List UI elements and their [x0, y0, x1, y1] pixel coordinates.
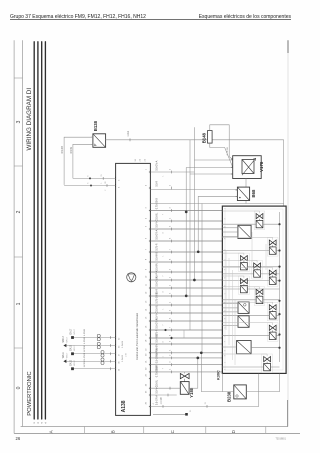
svg-text:0.5-GN-A: 0.5-GN-A — [155, 353, 158, 364]
svg-text:WIRING DIAGRAM DI: WIRING DIAGRAM DI — [26, 88, 33, 151]
svg-text:Grupo 37 Esquema eléctrico FM9: Grupo 37 Esquema eléctrico FM9, FM12, FH… — [10, 14, 146, 20]
wire Y188 right side — [189, 387, 198, 389]
svg-text:0.5-Y-C: 0.5-Y-C — [155, 311, 158, 319]
solenoid valve SV1 — [222, 211, 264, 230]
long wire above gearbox unit y203.5 — [150, 203, 283, 205]
A138 left edge connector pins — [115, 177, 117, 370]
wire A138 to gearbox unit row y344 — [150, 343, 222, 345]
wire A138 to gearbox unit row y221 — [150, 220, 222, 222]
wire A138 ground stub y414.3 — [153, 413, 186, 415]
wire A138 to gearbox unit row y252 — [150, 251, 222, 253]
wire A138 left pin row y361.25 — [65, 360, 116, 362]
wire V178 bottom drop — [245, 179, 247, 204]
connector ticks on B138 wires — [89, 177, 107, 187]
svg-text:WS13: WS13 — [63, 336, 65, 343]
pin tick row y368.75 — [110, 367, 112, 370]
svg-text:7: 7 — [163, 214, 165, 215]
solenoid valve SV10 — [222, 354, 272, 373]
wire A138 to Y188 — [150, 387, 180, 389]
SV6 coil wires — [222, 288, 279, 290]
gearbox internal stepped wire runs — [226, 232, 266, 365]
solenoid valve SV6 — [222, 276, 249, 295]
svg-text:V178: V178 — [259, 161, 264, 172]
svg-text:WS17: WS17 — [74, 328, 76, 334]
wire A138 to gearbox unit row y280 — [150, 279, 222, 281]
svg-text:0.5-R: 0.5-R — [155, 181, 158, 187]
wire to V178 pin2 y167.5 — [186, 167, 233, 169]
solenoid valve SV5 — [222, 268, 278, 287]
solenoid valve SV2 — [222, 238, 278, 257]
A138 left edge pin numbers inside — [118, 179, 120, 371]
frame right border bottom segment — [287, 400, 289, 427]
svg-text:0.5-GR-A: 0.5-GR-A — [155, 229, 158, 240]
svg-text:4: 4 — [163, 342, 165, 343]
off-page terminal marker row y353.75 — [71, 352, 74, 355]
frame bottom inner ruler line — [21, 426, 288, 428]
S2 upper pins wires — [222, 304, 238, 312]
wire gearbox edge drop below box — [221, 373, 223, 391]
power bus bar 4 — [44, 42, 46, 419]
wire B238 vertical to junction y352.8 — [200, 353, 202, 392]
svg-text:A138: A138 — [121, 400, 127, 412]
wire to B68 pin2 — [198, 195, 237, 197]
off-page terminal marker row y368.75 — [71, 367, 74, 370]
bottom ruler zone letters A B C D — [49, 429, 237, 433]
svg-text:1-F508: 1-F508 — [84, 352, 86, 360]
connector tick on Y188 wire — [169, 387, 171, 390]
pin tick row y337.5 — [110, 336, 112, 339]
svg-text:POWERTRONIC: POWERTRONIC — [27, 371, 33, 415]
pin tick row y345.5 — [110, 344, 112, 347]
inline connector circles row y353.75 — [101, 351, 104, 358]
svg-text:DA17: DA17 — [69, 328, 72, 334]
svg-text:Y188: Y188 — [189, 387, 194, 398]
SV3 coil wires — [222, 266, 279, 268]
speed sensor S1 — [238, 225, 251, 238]
S1 pins and wires — [222, 228, 238, 237]
wire A138 pin y395 stub — [150, 394, 176, 396]
svg-text:0.5-Y-C: 0.5-Y-C — [155, 219, 158, 227]
wire B148 bottom to V178 — [210, 143, 233, 167]
header rule — [10, 19, 291, 21]
ground terminal marker 31 — [185, 413, 188, 416]
off-page terminal marker row y337.5 — [71, 336, 74, 339]
vertical wire bus x194 — [193, 127, 195, 280]
vertical wire bus x186 — [185, 168, 187, 296]
S2 lower pin wire — [222, 324, 238, 326]
svg-text:1.0-SB: 1.0-SB — [161, 397, 163, 404]
svg-text:B68: B68 — [251, 189, 256, 197]
svg-text:0.5-BN: 0.5-BN — [155, 263, 158, 271]
svg-text:4: 4 — [163, 233, 165, 234]
svg-text:WS17: WS17 — [67, 336, 69, 342]
wire A138 bottom long row y406.4 — [150, 374, 258, 407]
svg-text:K30C: K30C — [217, 370, 221, 380]
S3 pin wires — [222, 346, 279, 349]
wire B238 right up to gearbox unit — [246, 374, 279, 392]
svg-text:T3019801: T3019801 — [276, 439, 287, 441]
output speed sensor S2 lower — [238, 316, 249, 328]
svg-text:A: A — [49, 430, 54, 433]
solenoid valve Y188 — [180, 374, 189, 395]
inline connector circles row y337.5 — [97, 334, 100, 341]
SV1 coil wires — [222, 223, 279, 225]
V178 internal variable valve symbol — [242, 158, 256, 175]
wire A138 left pin row y337.5 — [73, 337, 116, 339]
frame left outer border — [13, 40, 15, 433]
svg-text:0: 0 — [16, 386, 22, 389]
svg-text:7: 7 — [163, 368, 165, 369]
svg-text:1-W: 1-W — [126, 353, 128, 357]
svg-text:Control unit, TECU automatic t: Control unit, TECU automatic transmissio… — [136, 312, 139, 360]
wire labels on ladder rows — [155, 160, 171, 405]
pressure regulator V178 box — [233, 156, 262, 179]
control unit A138 box — [116, 163, 151, 415]
wire Y188 stem to upper row — [184, 372, 186, 374]
svg-text:2: 2 — [105, 190, 107, 191]
power bus bar 2 — [37, 42, 39, 419]
solenoid valve SV3 — [222, 253, 249, 272]
wire A138 to gearbox unit row y371.9 — [150, 371, 222, 373]
wire B148 top to V178 — [210, 125, 233, 159]
wire A138 pin2 to B68 — [150, 189, 237, 191]
svg-text:WS17: WS17 — [74, 344, 76, 350]
svg-text:B138: B138 — [93, 120, 98, 131]
right bus wire down to gearbox unit — [283, 140, 285, 206]
svg-text:1: 1 — [34, 422, 36, 423]
svg-text:3: 3 — [16, 120, 22, 123]
wire A138 left pin row y345.5 — [65, 345, 116, 347]
svg-text:0.5-W-B: 0.5-W-B — [155, 252, 158, 261]
svg-text:1.0-R: 1.0-R — [127, 130, 130, 136]
svg-text:B148: B148 — [202, 132, 207, 143]
svg-text:1: 1 — [225, 208, 227, 209]
svg-text:1: 1 — [163, 176, 165, 177]
SV8 coil wires — [222, 314, 279, 316]
svg-text:Esquemas eléctricos de los com: Esquemas eléctricos de los componentes — [199, 14, 292, 20]
frame bottom outer border — [14, 432, 300, 434]
svg-text:1-DA15: 1-DA15 — [121, 354, 124, 362]
frame left inner ruler line — [22, 40, 24, 426]
svg-text:0.75-SB-B: 0.75-SB-B — [155, 292, 158, 303]
vertical wire bus x198 — [197, 196, 199, 252]
tick on y395 stub — [167, 394, 169, 397]
svg-text:1-F508: 1-F508 — [84, 328, 86, 336]
wire row into A138 left pin y185.5 — [64, 185, 116, 187]
off-page terminal marker row y345.5 — [63, 344, 66, 347]
bottom ruler zone dividers — [85, 427, 266, 434]
SV7 coil wires — [222, 299, 279, 301]
sensor B238 — [234, 385, 247, 399]
bus bar id labels bottom — [34, 422, 47, 423]
solenoid valve SV9 — [222, 323, 278, 342]
svg-text:0.5-GN-A: 0.5-GN-A — [155, 160, 158, 171]
svg-text:0.5-SB: 0.5-SB — [61, 146, 64, 154]
A138 right edge pin numbers — [146, 168, 148, 404]
svg-text:DA13: DA13 — [69, 359, 72, 365]
left ruler zone dividers — [14, 78, 22, 348]
connector tick on B138 output — [129, 138, 131, 141]
wire A138 to gearbox unit row y288 — [150, 287, 222, 289]
B68 left pins — [236, 190, 238, 196]
junction node x186 y211.9 — [185, 211, 188, 214]
svg-text:0.5-GR-A: 0.5-GR-A — [155, 318, 158, 329]
svg-text:4: 4 — [163, 292, 165, 293]
wire A138 to gearbox unit row y313 — [150, 312, 222, 314]
inline connector circles row y345.5 — [97, 342, 100, 349]
sensor B68 — [237, 187, 249, 200]
gearbox internal vertical bus — [279, 212, 281, 362]
bus bar bottom terminal labels — [34, 422, 47, 424]
svg-text:4: 4 — [45, 422, 47, 423]
gearbox unit inner faint outline — [225, 209, 283, 370]
svg-text:0.5-GN-A: 0.5-GN-A — [155, 276, 158, 287]
svg-text:7: 7 — [163, 325, 165, 326]
SV4 coil wires — [222, 273, 279, 275]
svg-text:0.75-R: 0.75-R — [155, 243, 158, 250]
wire A138 to gearbox unit row y321 — [150, 320, 222, 322]
speed sensor S3 — [237, 341, 252, 354]
pin tick row y353.75 — [110, 352, 112, 355]
frame right border top segment — [287, 40, 289, 53]
vertical wire from node y357.9 down — [197, 358, 199, 388]
junction node x201 y352.8 — [200, 351, 203, 354]
svg-text:WS11: WS11 — [63, 351, 65, 358]
tick and label 31 on bottom row — [206, 405, 208, 408]
off-page terminal marker row y361.25 — [63, 360, 66, 363]
svg-text:1: 1 — [163, 256, 165, 257]
svg-text:3: 3 — [42, 422, 44, 423]
connector tick on bottom row — [162, 405, 164, 408]
link wire rows 332-338 — [183, 330, 185, 338]
gearbox solenoid unit box K30C — [222, 206, 286, 373]
wire B138 output to right bus — [106, 139, 284, 141]
SV5 coil wires — [222, 280, 279, 282]
svg-text:DA15: DA15 — [69, 344, 72, 350]
gearbox unit left edge pins — [221, 209, 223, 373]
B138 left pins — [91, 137, 93, 144]
junction node y357.9 — [196, 357, 199, 360]
svg-text:0.5-BL: 0.5-BL — [155, 304, 158, 312]
svg-text:1: 1 — [163, 309, 165, 310]
svg-text:0.5-BL: 0.5-BL — [155, 212, 158, 220]
svg-text:2: 2 — [38, 422, 40, 423]
SV2 coil wires — [222, 250, 279, 252]
junction node x186 y295.9 — [185, 295, 188, 298]
wire B238 left — [201, 391, 234, 393]
svg-text:0.5-Y-C: 0.5-Y-C — [155, 385, 158, 393]
wire A138 left pin row y368.75 — [73, 368, 116, 370]
wire to V178 pin1 y160 — [194, 159, 232, 161]
wire A138 to gearbox unit row y352.8 — [150, 352, 222, 354]
junction nodes on gearbox bus — [278, 223, 280, 349]
wire A138 to gearbox unit row y338 — [150, 337, 222, 339]
pin tick row y361.25 — [110, 360, 112, 363]
pressure sensor B138 — [93, 134, 106, 148]
wire A138 to gearbox unit row y210.5 — [150, 210, 222, 212]
solenoid valve SV4 — [222, 260, 262, 279]
svg-text:WS17: WS17 — [67, 352, 69, 358]
output speed sensor S2 upper — [238, 302, 249, 313]
svg-text:B238: B238 — [227, 391, 232, 402]
power bus bar 1 — [33, 42, 35, 419]
wire labels B138 branch — [61, 146, 107, 191]
power bus bar 3 — [41, 42, 43, 419]
svg-text:B: B — [110, 430, 115, 433]
left ruler zone numbers 3 2 1 0 — [16, 120, 22, 389]
junction node row332 — [164, 329, 166, 331]
wire B138 pin1 left and down — [64, 137, 93, 185]
A138 internal torque converter symbol — [127, 273, 136, 282]
svg-text:2: 2 — [16, 210, 22, 213]
svg-text:1-DA16: 1-DA16 — [121, 340, 124, 348]
svg-text:WS17: WS17 — [74, 359, 76, 365]
junction node x198 y251.8 — [197, 250, 200, 253]
gearbox unit pin numbers — [225, 208, 227, 370]
solenoid valve SV8 — [222, 302, 278, 321]
svg-text:1-F508: 1-F508 — [84, 345, 86, 353]
svg-text:0.5-W-B: 0.5-W-B — [155, 334, 158, 343]
wire A138 to gearbox unit row y364.7 — [150, 364, 222, 366]
wire A138 to gearbox unit row y229 — [150, 228, 222, 230]
svg-text:0.5-GR-A: 0.5-GR-A — [155, 395, 158, 406]
SV9 coil wires — [222, 335, 279, 337]
SV10 coil wires — [222, 366, 279, 368]
wire A138 to gearbox unit row y330 — [150, 329, 222, 331]
vertical wire bus x202 — [201, 204, 203, 353]
labels above A138 top edge — [135, 158, 147, 161]
wire to V178 pin3 y174 — [190, 173, 233, 175]
svg-text:26: 26 — [16, 436, 21, 441]
svg-text:1: 1 — [163, 356, 165, 357]
svg-text:1-F508: 1-F508 — [84, 336, 86, 344]
junction node x194 y280 — [193, 279, 196, 282]
svg-text:7: 7 — [163, 276, 165, 277]
svg-text:0.5-W: 0.5-W — [70, 146, 73, 153]
wire A138 to gearbox unit row y272 — [150, 271, 222, 273]
wire A138 to gearbox unit row y296 — [150, 295, 222, 297]
svg-text:1: 1 — [16, 302, 22, 305]
A138 internal wire name labels left side — [121, 340, 128, 362]
junction node row338 — [170, 337, 172, 339]
V178 left edge pins — [231, 159, 233, 174]
wire A138 to gearbox unit row y262 — [150, 261, 222, 263]
inline connector circles row y361.25 — [101, 358, 104, 365]
wire row into A138 left pin y178.4 — [73, 177, 116, 179]
solenoid valve SV7 — [222, 287, 264, 306]
svg-text:1: 1 — [101, 183, 103, 184]
resistor B148 — [208, 131, 213, 144]
wire B138 pin2 left and down — [73, 144, 93, 178]
vertical wire bus x190 — [189, 140, 191, 330]
frame right border — [287, 53, 289, 427]
wire A138 left pin row y353.75 — [73, 353, 116, 355]
wire A138 pin1 jog up — [150, 171, 194, 173]
A138 right edge connector pins — [149, 171, 151, 408]
wire A138 to gearbox unit row y357.9 — [150, 357, 222, 359]
wire A138 to gearbox unit row y305 — [150, 304, 222, 306]
svg-text:1-F508: 1-F508 — [84, 360, 86, 368]
svg-text:0.75-GR: 0.75-GR — [227, 147, 229, 156]
wire A138 to gearbox unit row y241 — [150, 240, 222, 242]
svg-text:0.75-SB-B: 0.75-SB-B — [155, 366, 158, 377]
